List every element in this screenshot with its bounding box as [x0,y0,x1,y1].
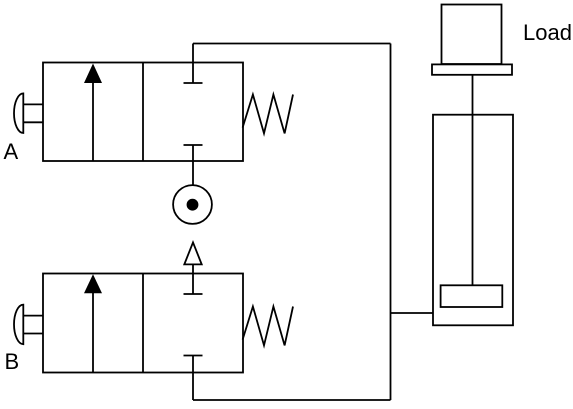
svg-text:A: A [4,139,19,164]
load base plate [432,64,512,74]
spring A (return spring) [243,95,293,134]
svg-text:Load: Load [523,20,572,45]
valve A flow arrow [84,64,102,162]
valve B box divider [142,274,144,373]
push button B [14,305,43,345]
exhaust triangle [184,242,201,264]
cylinder body [433,115,513,326]
wire from valve B bottom port to bus (bottom) [193,399,391,401]
push button A [14,93,43,133]
valve A bottom blocked port [184,145,203,185]
wire bus to cylinder port [391,312,434,314]
valve A body [43,63,243,162]
piston [441,285,503,307]
wire vertical bus [390,44,392,401]
valve B flow arrow [84,274,102,372]
valve A box divider [142,63,144,162]
valve B body [43,274,243,373]
piston rod [472,75,474,285]
valve B top blocked port [184,264,203,294]
wire from valve A outlet to bus (top) [193,43,391,45]
pressure source (circle with dot) [173,185,212,224]
load box [442,5,502,65]
valve A top blocked port [184,44,203,84]
spring B (return spring) [243,307,293,346]
svg-text:B: B [5,349,20,374]
valve B bottom blocked port [184,356,203,401]
